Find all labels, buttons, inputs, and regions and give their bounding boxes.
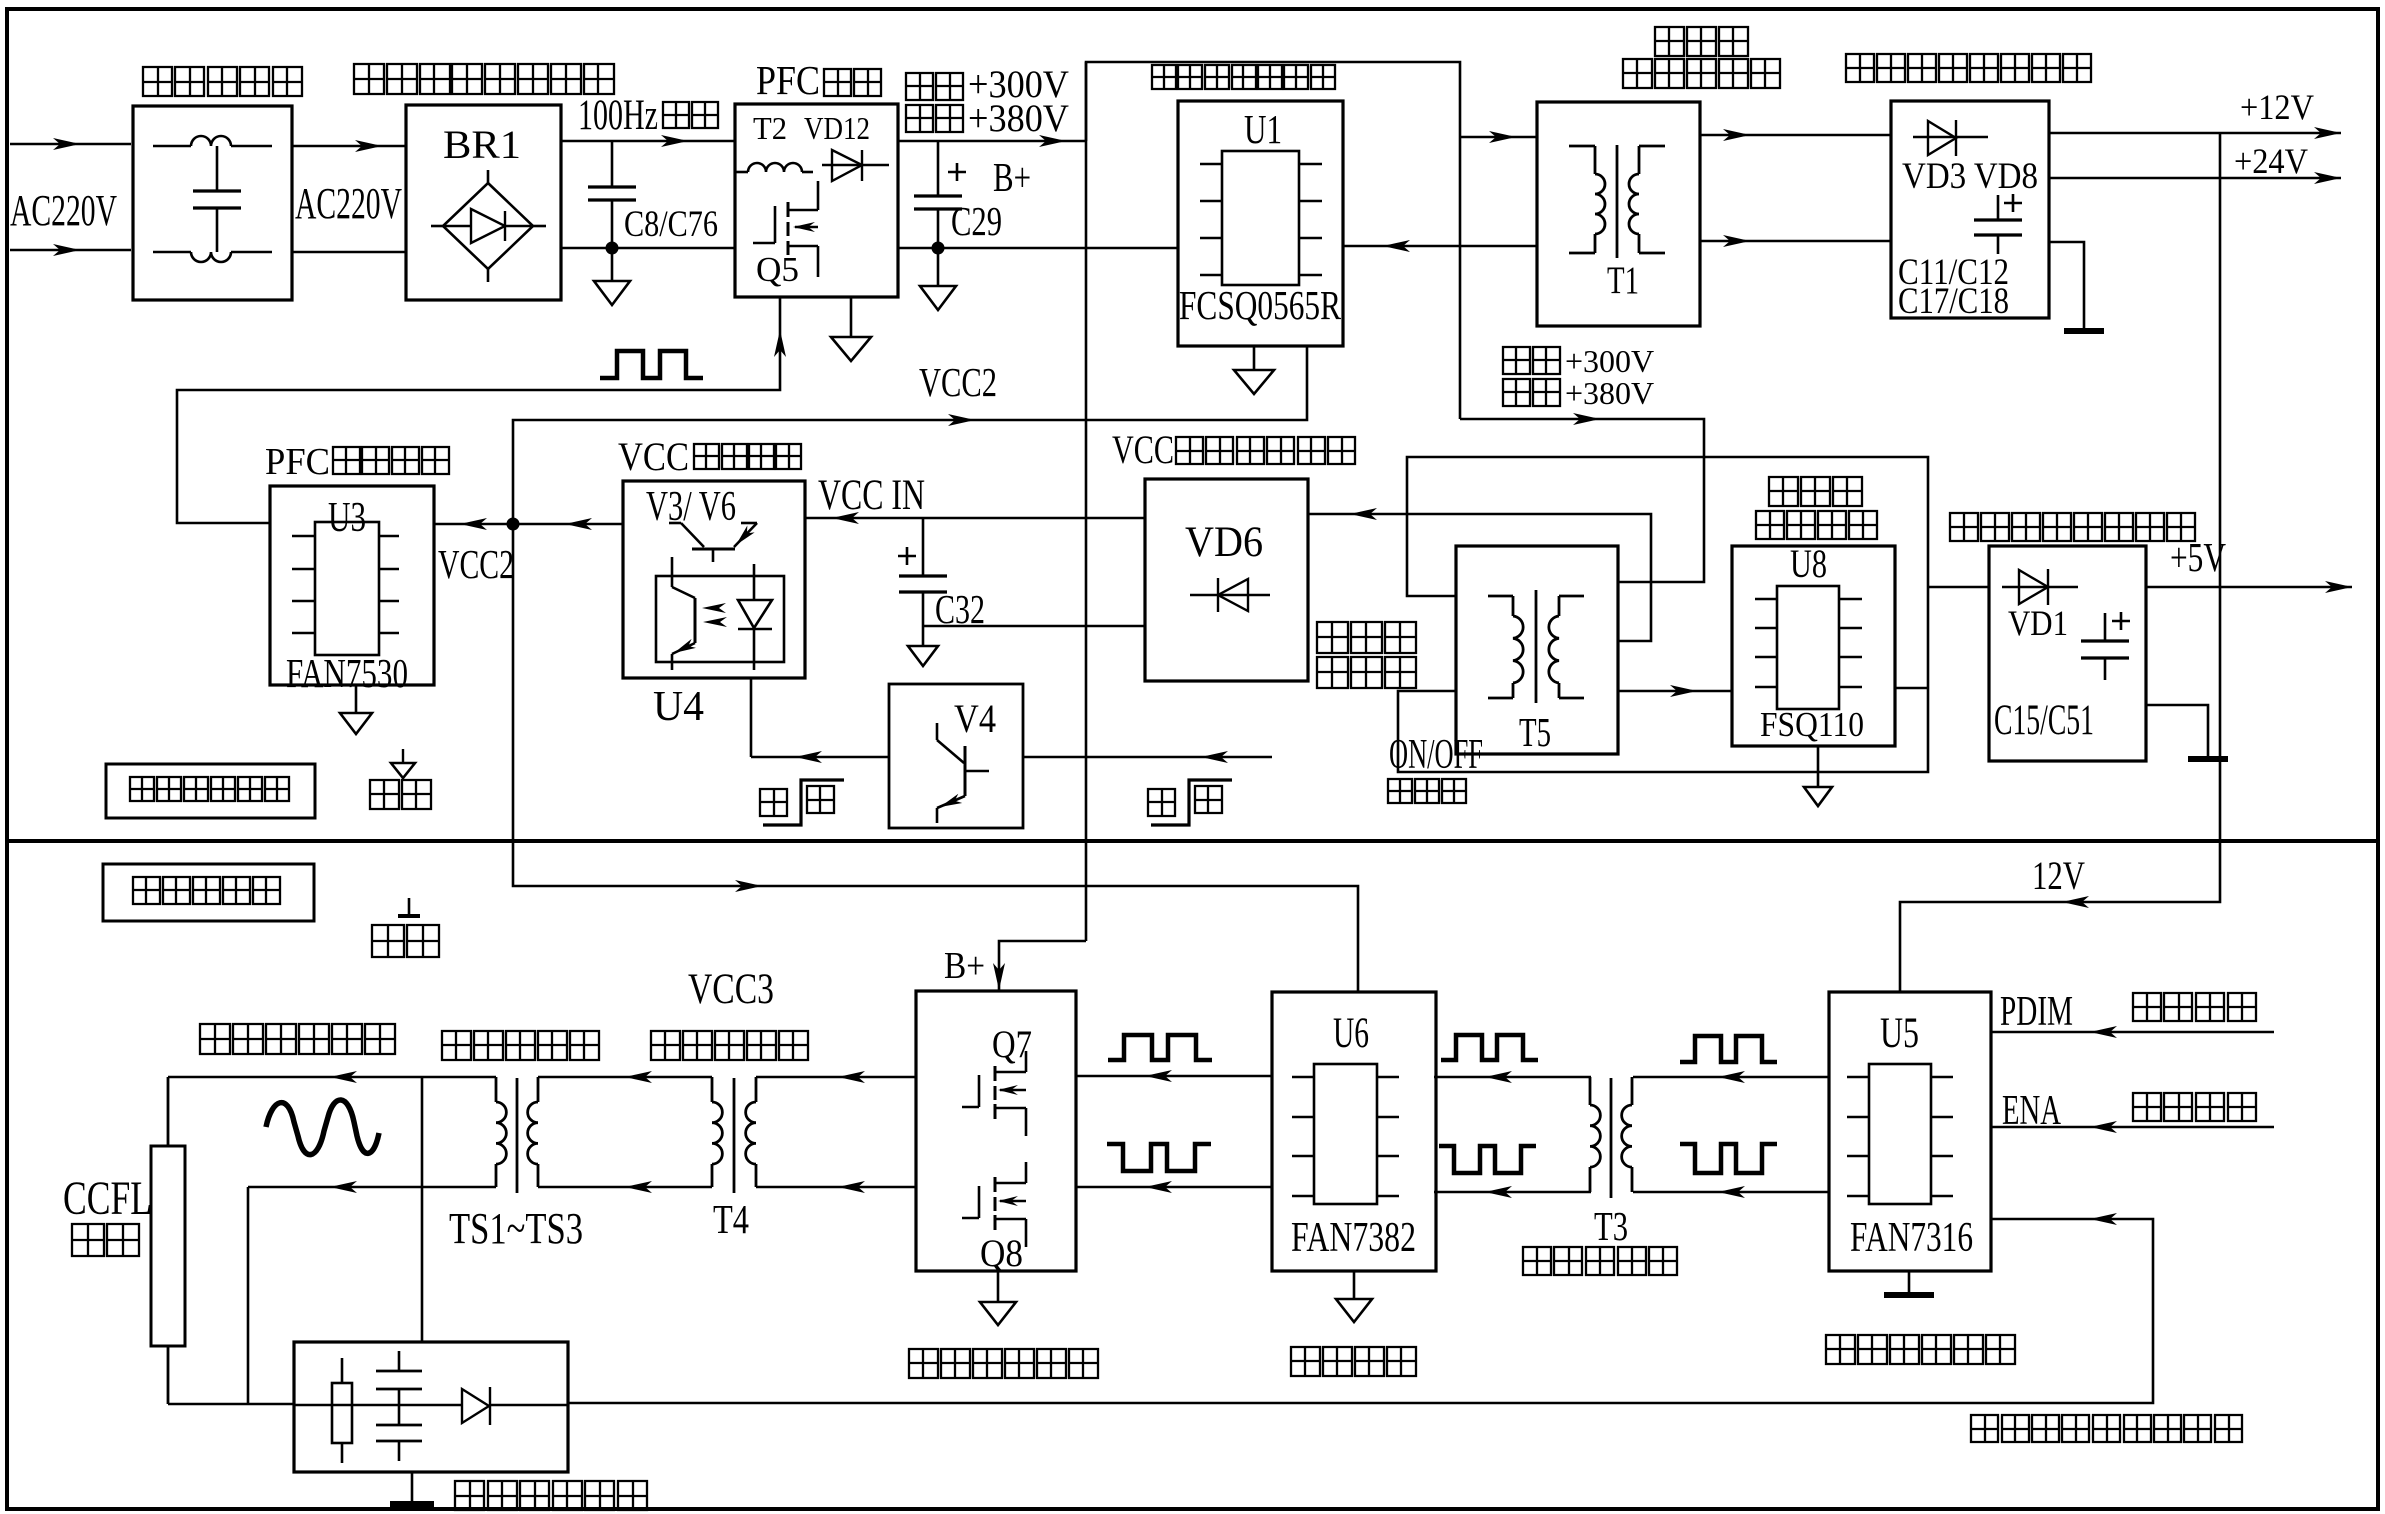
wire T4 to Q7 bottom (756, 1186, 916, 1189)
wire ENA input (1991, 1126, 2274, 1129)
diode VD6 symbol (1190, 594, 1270, 596)
square wave T3 top (1680, 1036, 1777, 1062)
svg-text:+380V: +380V (1565, 375, 1654, 411)
block secondary rectifier filter bottom (1989, 546, 2146, 761)
wire overcurrent protection (568, 1219, 2153, 1403)
ground below C32 (922, 626, 925, 646)
block main switching transformer T1 (1537, 102, 1700, 326)
switch step symbol left (763, 780, 844, 825)
svg-text:VCC: VCC (618, 434, 689, 479)
block drive control U5 (1829, 992, 1991, 1271)
square wave T3 bottom (1680, 1144, 1777, 1173)
switch step symbol right (1151, 780, 1232, 825)
wire PFC bottom rail to U1 (898, 247, 1178, 250)
ground below C8 (611, 248, 614, 281)
svg-text:U8: U8 (1790, 541, 1827, 586)
capacitor C2 in protection (398, 1389, 401, 1425)
optocoupler U4 box (656, 576, 784, 662)
svg-text:C17/C18: C17/C18 (1898, 281, 2009, 322)
wire ON/OFF into V4 (1023, 756, 1272, 759)
IC symbol U5 (1869, 1064, 1931, 1204)
block VCC rectifier filter (1145, 479, 1308, 681)
svg-text:AC220V: AC220V (295, 179, 402, 228)
transformer TS1-TS3 symbol (495, 1077, 498, 1102)
label tui-dong-dian-lu (1291, 1347, 1320, 1376)
label deng-guan (72, 1224, 104, 1256)
svg-text:U5: U5 (1880, 1010, 1919, 1057)
bridge rectifier BR1 inner diode (471, 209, 505, 243)
label shi-dian-zheng-liu-lv-bo-dian-lu (354, 64, 384, 94)
ground of VD1 block (2146, 705, 2208, 757)
label guan right (1195, 786, 1222, 813)
transistor Q5 MOSFET (753, 242, 775, 245)
label er-ci-zheng-liu-lv-bo-dian-lu bottom (1950, 513, 1978, 541)
junction dot VCC2 (507, 518, 520, 531)
svg-text:U1: U1 (1244, 106, 1282, 152)
capacitor C11 group (1997, 195, 2000, 220)
svg-text:T4: T4 (713, 1196, 749, 1242)
square wave U6 bottom (1439, 1146, 1536, 1173)
svg-text:AC220V: AC220V (10, 186, 117, 235)
block detect protect circuit (294, 1342, 568, 1472)
label kai-ji +380V (906, 105, 933, 132)
wire VCC2 to U1 (513, 346, 1307, 524)
wire B+ rail top bracket (1086, 62, 1460, 419)
label kai right (1148, 789, 1175, 816)
wire U6 to T3 top (1434, 1076, 1591, 1079)
wire B+ rail down to backlight (1085, 62, 1088, 941)
label kai-guan-ji (1388, 779, 1412, 803)
svg-text:T2: T2 (753, 110, 787, 146)
svg-text:V4: V4 (954, 696, 996, 741)
wire +24V output (2049, 177, 2341, 180)
svg-text:CCFL: CCFL (63, 1172, 152, 1225)
svg-text:VD1: VD1 (2008, 603, 2068, 643)
label guo-dian-liu-guo-dian-ya-bao-hu (1971, 1415, 1998, 1442)
block PFC driver circuit (270, 486, 434, 685)
svg-text:U4: U4 (653, 684, 704, 730)
wire +12V output (2049, 132, 2341, 135)
svg-text:Q5: Q5 (756, 250, 799, 289)
ground below protection block (411, 1472, 414, 1503)
svg-text:TS1~TS3: TS1~TS3 (449, 1204, 583, 1253)
IC symbol U8 (1777, 586, 1839, 709)
ground below Q7 block (997, 1271, 1000, 1302)
wire U6 to T3 bottom (1434, 1191, 1591, 1194)
block V4 (889, 684, 1023, 828)
inductor L2 bottom in EMI filter (153, 251, 191, 254)
wire TS primary to protection (421, 1077, 424, 1342)
svg-text:U6: U6 (1333, 1010, 1369, 1057)
block secondary rectifier filter top (1891, 101, 2049, 318)
CCFL tube symbol (167, 1077, 170, 1146)
svg-text:+300V: +300V (1565, 343, 1654, 379)
wire HV output top (168, 1076, 496, 1079)
section divider line (7, 839, 2378, 843)
label liang-du-kong-zhi (2133, 993, 2161, 1021)
square wave U6 top (1441, 1035, 1538, 1060)
label kai left (760, 789, 787, 816)
wire VCC2 into U3 (434, 523, 623, 526)
block push circuit U6 (1272, 992, 1436, 1271)
svg-text:12V: 12V (2032, 853, 2085, 898)
transistor Q8 MOSFET (962, 1217, 979, 1220)
wire AC220V input bottom (10, 249, 131, 252)
wire T1 out +12V side (1700, 134, 1891, 137)
wire EMI to BR1 top (292, 145, 406, 148)
block anti-interference circuit (133, 106, 292, 300)
wire branch to VD1 (1928, 586, 1989, 589)
svg-text:U3: U3 (328, 495, 366, 541)
svg-text:C29: C29 (951, 198, 1002, 244)
block main power thick-film circuit (1178, 101, 1343, 346)
svg-text:VCC: VCC (1112, 427, 1174, 472)
wire AC220V input top (10, 143, 131, 146)
svg-text:FAN7530: FAN7530 (286, 650, 408, 696)
label zhu-dian-yuan (1655, 27, 1684, 56)
wire U6 to Q8 gate (1076, 1186, 1272, 1189)
block sub power thick-film circuit (1732, 546, 1895, 746)
capacitor C8/C76 (611, 141, 614, 187)
ground below U6 (1353, 1271, 1356, 1299)
svg-text:FCSQ0565R: FCSQ0565R (1179, 282, 1341, 328)
wire 12V rail down to U5 (1900, 133, 2220, 992)
junction dot at C8 (606, 242, 619, 255)
label fu-dian-yuan left (1317, 622, 1348, 653)
wire BR1 to PFC bottom rail (561, 247, 735, 250)
box kai-guan-dian-yuan-bu-fen (106, 764, 315, 818)
svg-text:BR1: BR1 (443, 122, 521, 167)
label bei-guang-deng-bu-fen (133, 877, 160, 904)
label guan left (807, 786, 834, 813)
svg-text:T1: T1 (1607, 259, 1639, 302)
svg-text:ENA: ENA (2002, 1088, 2061, 1134)
wire T5 to U8 (1618, 690, 1732, 693)
svg-text:B+: B+ (944, 945, 985, 987)
svg-text:C15/C51: C15/C51 (1994, 697, 2094, 744)
svg-text:FAN7382: FAN7382 (1291, 1215, 1416, 1261)
transistor V4 symbol (936, 723, 939, 740)
inductor T2 in PFC (736, 171, 748, 174)
wire VCC2 down to backlight (513, 524, 1358, 992)
wire +5V output (2146, 586, 2352, 589)
wire protection internal rail (294, 1404, 462, 1407)
wire branch to U8 right pin (1895, 687, 1928, 690)
svg-text:B+: B+ (993, 154, 1031, 200)
block boost output Q7 Q8 (916, 991, 1076, 1271)
label jiao-liu-gao-ya-shu-chu (200, 1024, 230, 1054)
svg-text:VD12: VD12 (804, 110, 870, 146)
junction dot at C29 (932, 242, 945, 255)
wire 380V into T1 (1460, 136, 1537, 139)
block VCC control circuit (623, 481, 805, 678)
ground below U3 (355, 685, 358, 713)
resistor R in protection (341, 1358, 344, 1383)
square wave at PFC gate (600, 351, 703, 378)
svg-text:100Hz: 100Hz (578, 92, 658, 139)
sine wave symbol (266, 1100, 379, 1155)
wire U3 drive to Q5 gate (177, 297, 780, 523)
optocoupler U4 LED (753, 564, 756, 600)
label sheng-ya-bian-ya-qi (442, 1031, 471, 1060)
label re-di (370, 780, 399, 809)
svg-text:T3: T3 (1594, 1203, 1628, 1249)
block mains rectifier filter (406, 105, 561, 300)
diode VD12 in PFC (822, 164, 889, 166)
label fu-dian-yuan U8 (1769, 477, 1798, 506)
label sheng-ya-shu-chu-dian-lu (909, 1349, 938, 1378)
wire B+ down to Q7 (999, 941, 1086, 992)
label zhu-dian-yuan-hou-mo-dian-lu (1152, 65, 1176, 89)
svg-text:VCC2: VCC2 (438, 541, 514, 587)
svg-text:PFC: PFC (265, 441, 330, 483)
transformer T3 symbol (1589, 1077, 1592, 1105)
capacitor C1 in protection (398, 1351, 401, 1371)
label bian-ya-qi left (1317, 657, 1348, 688)
svg-text:VD6: VD6 (1185, 519, 1263, 566)
label kai-guan-dian-yuan-bu-fen (130, 777, 154, 801)
svg-text:C8/C76: C8/C76 (624, 204, 718, 245)
IC symbol U6 (1314, 1064, 1377, 1204)
wire T5 to VD6 (1308, 514, 1651, 641)
ground below U8 (1817, 746, 1820, 787)
optocoupler U4 phototransistor (671, 557, 674, 587)
label hou-mo-dian-lu U8 (1756, 511, 1784, 539)
svg-text:FAN7316: FAN7316 (1850, 1215, 1973, 1261)
ground below U1 (1253, 346, 1256, 370)
wire T5 primary net (1398, 457, 1928, 772)
capacitor C29 (937, 141, 940, 196)
ground below PFC source (850, 297, 853, 337)
ground below C29 (937, 248, 940, 286)
transistor V3/V6 symbol (669, 522, 681, 525)
label jian-ce-bao-hu-dian-lu (455, 1481, 484, 1510)
label dai-ji +300V second (1503, 347, 1530, 374)
wire PDIM input (1991, 1031, 2274, 1034)
wire BR1 to PFC 100Hz (561, 140, 735, 143)
optocoupler U4 light arrows (702, 603, 726, 613)
wire TS to T4 bottom (538, 1186, 712, 1189)
wire 380V to T5 (1460, 419, 1704, 582)
diode in protection (462, 1389, 489, 1423)
box bei-guang-deng-bu-fen (103, 864, 314, 921)
wire T1 out +24V side (1700, 240, 1891, 243)
svg-text:PFC: PFC (756, 57, 820, 103)
label kai-guan-bian-ya-qi (1623, 59, 1652, 88)
bridge rectifier BR1 diamond (443, 183, 533, 269)
square wave Q8 drive (1107, 1144, 1211, 1171)
svg-text:T5: T5 (1519, 709, 1551, 755)
svg-text:Q8: Q8 (980, 1232, 1023, 1275)
label qu-dong-kong-zhi-dian-lu (1826, 1335, 1855, 1364)
ground hot symbol (402, 749, 404, 763)
IC symbol U1 (1222, 151, 1299, 285)
capacitor C32 (922, 518, 925, 576)
transformer T4 symbol (711, 1077, 714, 1102)
svg-text:+380V: +380V (968, 97, 1069, 140)
capacitor CX in EMI filter (216, 146, 219, 191)
transistor Q7 MOSFET (962, 1106, 979, 1109)
label shu-chu-bian-ya-qi (651, 1031, 680, 1060)
transformer T1 symbol (1594, 146, 1597, 174)
label dian-deng-kong-zhi (2133, 1093, 2161, 1121)
wire EMI to BR1 bottom (292, 251, 406, 254)
wire T3 to U5 top (1633, 1076, 1829, 1079)
svg-text:VD3 VD8: VD3 VD8 (1902, 156, 2038, 197)
ground below U5 (1908, 1271, 1911, 1294)
square wave Q7 drive (1108, 1035, 1212, 1060)
wire U1 feedback from T1 (1343, 245, 1537, 248)
wire T3 to U5 bottom (1633, 1191, 1829, 1194)
svg-text:V3/ V6: V3/ V6 (646, 484, 736, 530)
block sub power transformer T5 (1456, 546, 1618, 754)
capacitor C15/C51 symbol (2104, 613, 2107, 641)
svg-text:+12V: +12V (2240, 87, 2314, 127)
wire HV output bottom (248, 1186, 496, 1189)
inductor L1 top in EMI filter (153, 145, 191, 148)
wire PFC output B+ (898, 140, 1086, 143)
svg-text:VCC2: VCC2 (919, 359, 997, 405)
label kai-ji +380V second (1503, 379, 1530, 406)
svg-text:VCC3: VCC3 (688, 966, 774, 1013)
svg-text:+5V: +5V (2170, 534, 2226, 580)
wire VCC IN (805, 517, 1145, 520)
diode VD3 symbol (1913, 136, 1988, 138)
wire T4 to Q7 top (756, 1076, 916, 1079)
svg-text:PDIM: PDIM (2000, 989, 2073, 1035)
label dai-ji +300V (906, 73, 933, 100)
svg-text:VCC IN: VCC IN (818, 472, 925, 519)
svg-text:FSQ110: FSQ110 (1760, 705, 1864, 744)
ground of VD3 block (2049, 242, 2084, 329)
block PFC circuit (735, 104, 898, 297)
wire U6 to Q7 gate (1076, 1075, 1272, 1078)
transformer T5 symbol (1512, 596, 1515, 616)
wire CCFL return (168, 1403, 294, 1406)
label er-ci-zheng-liu-lv-bo-dian-lu top (1846, 54, 1874, 82)
label kang-gan-rao-dian-lu (143, 67, 172, 96)
wire C32 to VD6 (923, 625, 1145, 628)
wire TS to T4 top (538, 1076, 712, 1079)
ground cold symbol (408, 898, 411, 916)
svg-text:+24V: +24V (2234, 141, 2308, 181)
wire V4 base from V3V6 (750, 678, 753, 757)
IC symbol U3 (315, 522, 379, 655)
diode VD1 symbol (2002, 586, 2078, 588)
label leng-di (372, 925, 404, 957)
label tui-dong-bian-ya-qi (1523, 1247, 1551, 1275)
